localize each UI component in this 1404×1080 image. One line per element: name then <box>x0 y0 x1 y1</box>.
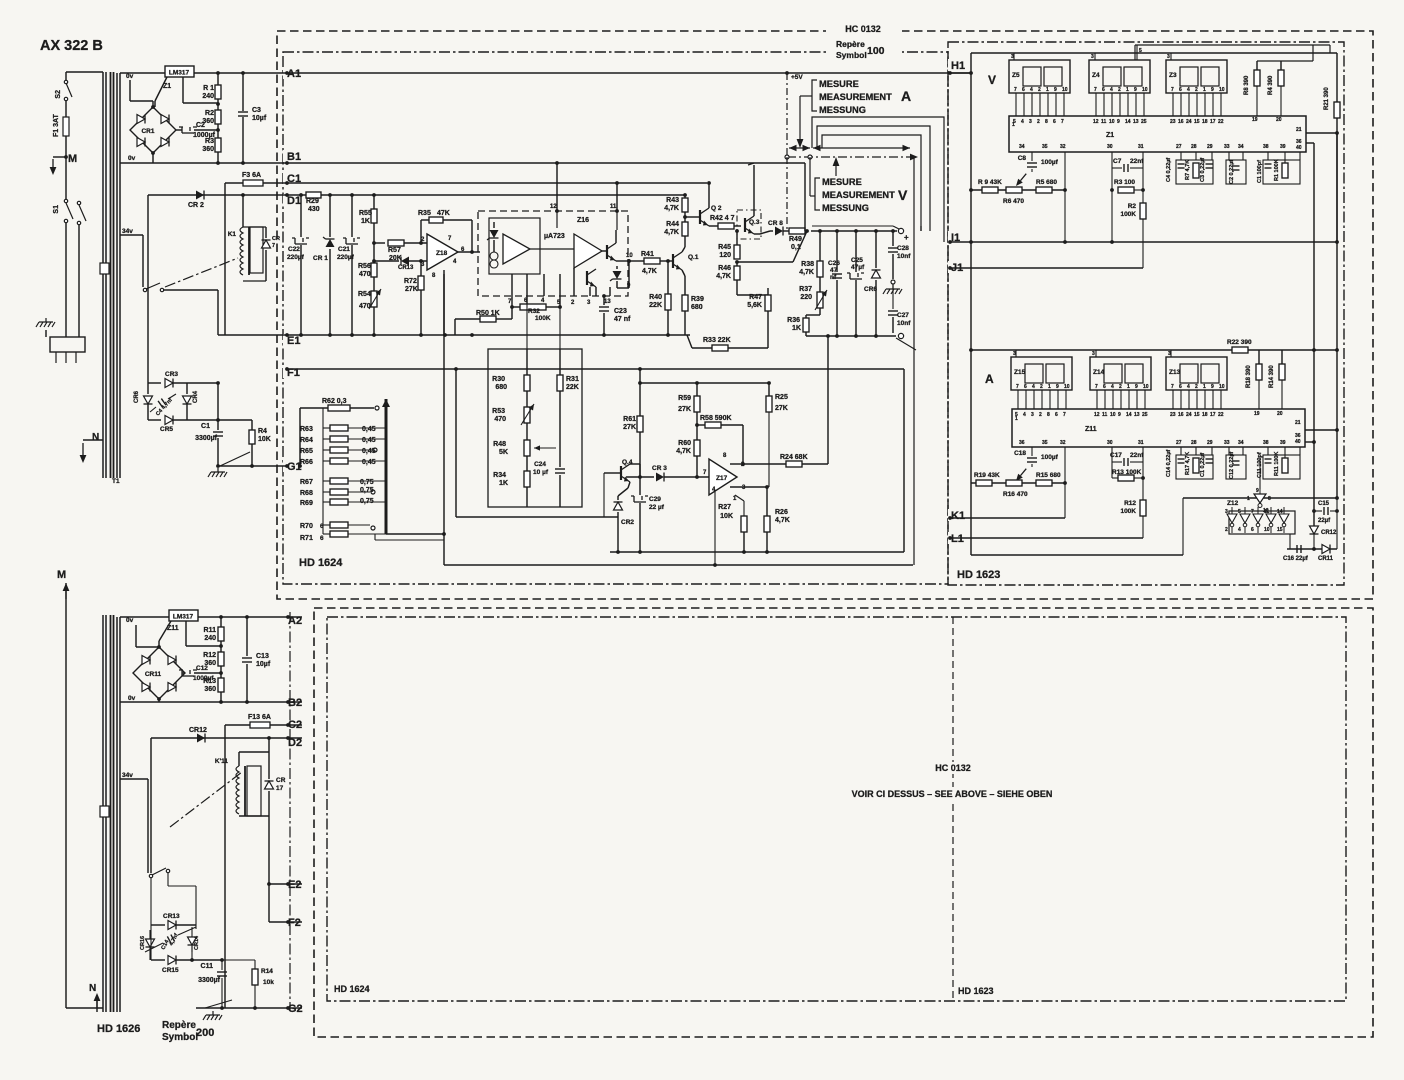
svg-text:22K: 22K <box>649 302 662 309</box>
svg-text:10k: 10k <box>263 979 274 986</box>
sense line L2 <box>817 126 930 231</box>
wire G2 jog <box>205 1000 232 1008</box>
svg-text:R12: R12 <box>203 652 216 659</box>
bracket MESURE V <box>810 157 820 210</box>
resistor R46 4.7K <box>716 262 740 295</box>
svg-text:Q.1: Q.1 <box>688 254 699 261</box>
bus D2 rail <box>151 737 302 739</box>
terminal I1 <box>948 231 968 244</box>
shunt R49 0.1 <box>789 228 805 251</box>
svg-text:13: 13 <box>604 299 611 305</box>
diode CR5 (aux) <box>148 416 218 434</box>
svg-text:R12: R12 <box>1124 500 1136 507</box>
svg-text:R61: R61 <box>623 416 636 423</box>
Z16 bottom pin 7 <box>508 274 512 305</box>
svg-text:15: 15 <box>1194 412 1200 418</box>
resistor R60 4.7K <box>676 425 700 479</box>
wire D2 column <box>150 738 152 873</box>
svg-text:10: 10 <box>626 253 633 259</box>
HC 0132 label (lower) <box>928 762 978 774</box>
svg-text:AX 322 B: AX 322 B <box>40 38 103 54</box>
filter R11 100K <box>1274 447 1300 476</box>
diode CR12 (display) <box>1310 526 1338 549</box>
svg-text:C25: C25 <box>851 257 863 264</box>
wire pot rail A <box>971 482 1065 484</box>
wire R11-R12 <box>219 641 223 652</box>
svg-text:R26: R26 <box>775 509 788 516</box>
svg-text:6: 6 <box>1103 384 1106 390</box>
svg-text:36: 36 <box>1019 440 1025 446</box>
display Z3 pins <box>1170 87 1225 125</box>
svg-text:R29: R29 <box>306 198 319 205</box>
svg-text:10: 10 <box>1142 87 1148 93</box>
svg-text:5,6K: 5,6K <box>747 302 762 309</box>
capacitor C8 100µf <box>1016 152 1059 186</box>
bus F2 rail <box>269 921 302 923</box>
svg-text:4,7K: 4,7K <box>775 517 790 524</box>
wire LM317 adj <box>183 77 218 103</box>
svg-text:31: 31 <box>1138 144 1144 150</box>
svg-text:H1: H1 <box>951 60 965 72</box>
mains wire top <box>66 71 103 73</box>
svg-text:R37: R37 <box>799 286 812 293</box>
svg-text:C4 0,22µf: C4 0,22µf <box>1166 158 1172 182</box>
Z1 bottom pins <box>1019 144 1286 150</box>
svg-text:0v: 0v <box>126 617 134 624</box>
svg-text:3: 3 <box>1168 351 1171 357</box>
svg-text:7: 7 <box>1014 87 1017 93</box>
svg-text:CR 2: CR 2 <box>188 202 204 209</box>
wire R46 to R47 <box>737 294 768 296</box>
output transistor (Z16) <box>602 230 633 263</box>
arrow N (up) <box>89 983 100 1012</box>
lower-left dash-dot border <box>289 612 291 1010</box>
svg-text:27K: 27K <box>678 406 691 413</box>
inverter bank Z12 box <box>1229 511 1295 534</box>
svg-text:CR11: CR11 <box>145 671 162 678</box>
wire inverter rail <box>1183 496 1339 555</box>
wire switch out <box>151 884 196 925</box>
wire CR2 bottom drop <box>616 517 620 554</box>
svg-text:31: 31 <box>1138 440 1144 446</box>
wire relay rails <box>239 736 271 816</box>
svg-text:C22: C22 <box>288 246 300 253</box>
svg-text:32: 32 <box>1060 144 1066 150</box>
svg-text:Q.3: Q.3 <box>749 219 760 226</box>
rail amp top <box>640 382 769 384</box>
capacitor C24 10µf <box>533 391 565 507</box>
svg-text:R8 390: R8 390 <box>1244 75 1250 95</box>
svg-text:R4 390: R4 390 <box>1268 75 1274 95</box>
HD 1624 label <box>299 557 343 569</box>
bridge rectifier CR11 <box>133 645 185 701</box>
display Z14 <box>1090 350 1151 390</box>
svg-text:Z13: Z13 <box>1169 369 1181 376</box>
svg-text:R14: R14 <box>261 968 273 975</box>
dash-dot +5V drop <box>786 73 788 229</box>
sense line L1 <box>812 117 944 242</box>
svg-text:10µf: 10µf <box>256 661 271 668</box>
terminal A1 <box>283 67 305 80</box>
wire bridge2 bottom <box>158 699 160 702</box>
svg-text:8: 8 <box>1268 496 1271 502</box>
sub-board box R30-R34 <box>488 349 582 507</box>
terminal H1 <box>948 59 968 75</box>
wire H1-R9 column <box>950 73 973 350</box>
svg-text:3: 3 <box>1167 54 1170 60</box>
svg-text:S1: S1 <box>53 205 60 214</box>
dash-dot measure line <box>785 154 918 565</box>
svg-text:R45: R45 <box>718 244 731 251</box>
wire V+ top <box>811 226 909 242</box>
svg-text:MESSUNG: MESSUNG <box>822 203 869 213</box>
svg-text:2: 2 <box>1037 119 1040 125</box>
svg-text:N: N <box>89 983 96 994</box>
wire N arrow <box>80 432 103 463</box>
svg-text:R11: R11 <box>204 627 217 634</box>
bus B1 rail <box>120 161 805 165</box>
wire C2 column <box>224 725 226 1008</box>
svg-text:LM317: LM317 <box>169 70 190 77</box>
svg-text:5: 5 <box>1139 48 1142 54</box>
resistor R35 47K <box>418 210 480 254</box>
svg-text:MEASUREMENT: MEASUREMENT <box>822 190 895 200</box>
svg-text:11: 11 <box>1101 119 1107 125</box>
svg-text:47µf: 47µf <box>851 264 865 271</box>
wire R8R4 top rail <box>1257 45 1313 61</box>
resistor R12 360 <box>203 652 224 667</box>
svg-text:3: 3 <box>1225 509 1228 515</box>
svg-text:R34: R34 <box>493 472 506 479</box>
svg-text:6: 6 <box>1053 119 1056 125</box>
wire F1 right drop <box>903 369 905 552</box>
svg-text:C2 0,22µf: C2 0,22µf <box>1229 160 1235 184</box>
svg-text:Z5: Z5 <box>1012 72 1020 79</box>
svg-text:21: 21 <box>1296 127 1302 133</box>
op-amp Z18 <box>421 234 465 279</box>
svg-text:10K: 10K <box>258 436 271 443</box>
wire LM317 to bridge <box>155 77 167 107</box>
zener (Z16 out) <box>610 259 631 289</box>
bottom rail 565 <box>444 563 913 567</box>
svg-text:29: 29 <box>1207 144 1213 150</box>
label A <box>985 372 994 386</box>
filter C11 100pf <box>1257 447 1300 479</box>
resistor R14 10k <box>222 960 274 1010</box>
terminal A2 <box>285 614 307 627</box>
svg-text:2: 2 <box>1195 87 1198 93</box>
svg-text:9: 9 <box>1135 384 1138 390</box>
svg-text:CR11: CR11 <box>1318 556 1334 562</box>
svg-text:Symbol: Symbol <box>162 1032 198 1043</box>
resistor R32 100K <box>512 296 562 322</box>
svg-text:10: 10 <box>1109 119 1115 125</box>
dash-dot link relay2 <box>170 772 242 827</box>
svg-text:4,7K: 4,7K <box>799 269 814 276</box>
svg-text:Z16: Z16 <box>577 217 589 224</box>
svg-text:CR14: CR14 <box>194 935 200 950</box>
svg-text:R58 590K: R58 590K <box>700 415 732 422</box>
svg-text:12: 12 <box>1093 119 1099 125</box>
pot R48 5K <box>493 423 556 456</box>
diode CR11 (display) <box>1318 545 1334 563</box>
label V <box>988 73 996 87</box>
terminal F1 <box>283 366 305 379</box>
arrow M (down) <box>50 153 78 175</box>
svg-text:3300µf: 3300µf <box>195 435 218 442</box>
svg-text:Z12: Z12 <box>1227 500 1239 507</box>
wire box bottom <box>527 506 560 508</box>
HD 1624 label (lower box) <box>334 984 370 994</box>
svg-text:27K: 27K <box>775 405 788 412</box>
bus F1 rail <box>287 367 904 371</box>
svg-text:7: 7 <box>1063 412 1066 418</box>
wire Z18 bottom pins <box>443 270 445 335</box>
svg-text:47K: 47K <box>437 210 450 217</box>
filter C2 0.22µf <box>1226 152 1246 184</box>
resistor R4 10K <box>218 420 271 468</box>
wire pin32A col <box>1063 447 1067 518</box>
svg-text:29: 29 <box>1207 440 1213 446</box>
svg-text:220: 220 <box>800 294 812 301</box>
svg-text:11: 11 <box>610 204 617 210</box>
capacitor C14 4.7nf (PS2) <box>145 927 196 952</box>
resistor R57 20K <box>374 240 427 262</box>
terminal C2 <box>285 718 307 731</box>
label 0v top <box>126 73 134 80</box>
display Z5 <box>1009 53 1070 93</box>
svg-text:39: 39 <box>1280 440 1286 446</box>
svg-text:100: 100 <box>867 45 885 57</box>
bus E1 rail <box>287 333 690 337</box>
resistor R1 240 <box>202 71 221 100</box>
svg-text:Symbol: Symbol <box>836 50 867 60</box>
svg-text:40: 40 <box>1296 145 1302 151</box>
svg-text:24: 24 <box>1186 412 1192 418</box>
rail A top <box>969 348 1336 352</box>
terminal B2 <box>285 696 307 709</box>
svg-text:K1: K1 <box>951 510 965 522</box>
label Repere Symbol 200 <box>162 1020 214 1043</box>
svg-text:1: 1 <box>1247 496 1250 502</box>
resistor R15 680 <box>1036 472 1061 486</box>
label 34v (PS2) <box>122 772 133 779</box>
wire 34v tap2 <box>120 779 148 873</box>
span arrows A <box>789 145 810 151</box>
svg-text:0,75: 0,75 <box>360 487 374 494</box>
svg-text:22K: 22K <box>566 384 579 391</box>
svg-text:10: 10 <box>1064 384 1070 390</box>
pin 11 (Z16) <box>610 183 619 213</box>
svg-text:4: 4 <box>1023 412 1026 418</box>
resistor R70 <box>300 502 375 530</box>
svg-text:9: 9 <box>1117 119 1120 125</box>
svg-text:HD 1623: HD 1623 <box>957 569 1000 581</box>
filter C14 0.22µf <box>1166 447 1213 479</box>
svg-text:6: 6 <box>1251 527 1254 533</box>
svg-text:R66: R66 <box>300 459 313 466</box>
bus A2 rail <box>120 616 302 618</box>
svg-text:1: 1 <box>1048 384 1051 390</box>
bottom rail 552 <box>610 550 904 554</box>
svg-text:34v: 34v <box>122 772 133 779</box>
wire Z16 pin11 internal <box>616 211 618 230</box>
wire Z17 pin3 <box>730 485 769 489</box>
wire F1 loop bottom <box>456 516 618 518</box>
svg-text:C12: C12 <box>196 665 208 672</box>
switch (PS2) <box>148 868 170 884</box>
wire I1 rail <box>950 133 1337 242</box>
diode CR2 <box>614 488 635 526</box>
Z16 bottom pin 4 <box>541 274 545 304</box>
svg-text:9: 9 <box>1211 384 1214 390</box>
svg-text:K'11: K'11 <box>215 758 228 765</box>
svg-text:40: 40 <box>1295 439 1301 445</box>
capacitor C18 100µf <box>1014 447 1059 481</box>
svg-text:16: 16 <box>1178 119 1184 125</box>
filter R7 4.7K <box>1185 152 1199 180</box>
svg-text:10: 10 <box>1062 87 1068 93</box>
svg-text:C1: C1 <box>201 423 210 430</box>
pin 12 (Z16) <box>550 163 559 213</box>
resistor R12 100K <box>1120 447 1146 538</box>
svg-text:0v: 0v <box>126 73 134 80</box>
svg-text:4,7K: 4,7K <box>664 229 679 236</box>
wire Z18 column long <box>442 274 446 565</box>
pot R16 470 <box>1003 480 1028 498</box>
capacitor C4 4.7nf <box>150 394 176 417</box>
svg-text:C3 0,22µf: C3 0,22µf <box>1200 158 1206 182</box>
lower board divider <box>952 617 954 1001</box>
wire LM317-2 to bridge <box>159 621 171 647</box>
resistor R67 0.75 <box>300 461 386 486</box>
svg-text:100K: 100K <box>535 315 551 322</box>
svg-text:R70: R70 <box>300 523 313 530</box>
svg-text:C3: C3 <box>252 107 261 114</box>
svg-text:6: 6 <box>1055 412 1058 418</box>
diode CR16 <box>140 930 155 952</box>
svg-text:R48: R48 <box>493 441 506 448</box>
diode CR13 <box>151 913 196 930</box>
svg-text:7: 7 <box>1251 509 1254 515</box>
node M junction <box>64 155 68 159</box>
svg-text:A: A <box>985 372 994 386</box>
svg-text:R64: R64 <box>300 437 313 444</box>
svg-text:47 nf: 47 nf <box>614 316 631 323</box>
resistor R62 0.3 <box>298 398 379 468</box>
svg-text:38: 38 <box>1263 440 1269 446</box>
wire pin32 col <box>1063 152 1067 244</box>
svg-text:200: 200 <box>196 1027 214 1039</box>
svg-text:E1: E1 <box>287 335 300 347</box>
resistor R45 120 <box>718 229 740 264</box>
svg-text:R13: R13 <box>203 678 216 685</box>
svg-text:680: 680 <box>495 384 507 391</box>
svg-text:4: 4 <box>1187 384 1190 390</box>
svg-text:0,45: 0,45 <box>362 459 376 466</box>
diode CR13 <box>372 257 427 272</box>
diode CR14 <box>188 927 201 952</box>
relay K'11 <box>215 752 261 816</box>
capacitor C16 22µf <box>1283 545 1309 562</box>
svg-text:19: 19 <box>1254 411 1260 417</box>
svg-text:470: 470 <box>494 416 506 423</box>
inverter Z12 top <box>1247 457 1271 514</box>
svg-text:8: 8 <box>1047 412 1050 418</box>
display Z4 <box>1089 45 1150 93</box>
svg-text:CR12: CR12 <box>189 727 207 734</box>
label 0v mid (PS2) <box>128 695 136 702</box>
wire R1-R2 <box>216 99 220 110</box>
resistor R42 4.7 <box>710 215 741 229</box>
svg-text:17: 17 <box>276 785 284 792</box>
Z16 bottom pin 6 <box>524 274 528 304</box>
svg-text:R22 390: R22 390 <box>1227 339 1252 346</box>
svg-text:10: 10 <box>1143 384 1149 390</box>
resistor R68 0.75 <box>300 481 375 497</box>
capacitor C28 10nf <box>888 229 911 279</box>
Z16 bottom pin 3 <box>587 287 591 306</box>
wire S1-plug <box>66 223 79 337</box>
svg-text:R38: R38 <box>801 261 814 268</box>
svg-text:4,7K: 4,7K <box>716 273 731 280</box>
svg-text:10nf: 10nf <box>897 320 911 327</box>
svg-text:CR5: CR5 <box>160 426 173 433</box>
resistor R63 0.45 <box>300 408 386 433</box>
fuse F1 3AT <box>53 113 69 137</box>
svg-text:7: 7 <box>1016 384 1019 390</box>
svg-text:1K: 1K <box>361 218 370 225</box>
label 34v <box>122 228 133 235</box>
resistor R3 360 <box>202 138 221 165</box>
HD 1623 label (lower box) <box>958 986 994 996</box>
svg-text:34: 34 <box>1238 144 1244 150</box>
svg-text:9: 9 <box>1118 412 1121 418</box>
svg-text:100K: 100K <box>1120 508 1136 515</box>
svg-text:R54: R54 <box>358 291 371 298</box>
wire R55-R56 <box>372 223 376 263</box>
svg-text:R36: R36 <box>787 317 800 324</box>
transformer T11 <box>100 615 120 1012</box>
capacitor C23 47nf <box>599 294 631 337</box>
label MESURE A <box>819 79 911 115</box>
HD 1623 label <box>957 569 1000 581</box>
svg-text:4,7K: 4,7K <box>642 268 657 275</box>
svg-text:12: 12 <box>1094 412 1100 418</box>
resistor R 9 43K <box>978 179 1002 193</box>
capacitor C12 1000µf <box>179 665 223 682</box>
resistor R43 4.7K <box>664 193 688 212</box>
svg-text:C1 0,22µf: C1 0,22µf <box>1200 453 1206 477</box>
svg-text:M: M <box>57 569 66 581</box>
svg-text:2: 2 <box>1119 384 1122 390</box>
wire bridge top <box>130 80 153 107</box>
svg-text:HD 1623: HD 1623 <box>958 986 994 996</box>
diode CR 3 <box>626 465 709 482</box>
regulator Z1 LM317 <box>163 66 194 90</box>
svg-text:R71: R71 <box>300 535 313 542</box>
svg-text:21: 21 <box>1295 420 1301 426</box>
svg-text:CR: CR <box>272 236 280 242</box>
Z16 bottom pin 2 <box>571 268 575 306</box>
resistor R34 1K <box>493 456 530 507</box>
svg-text:HC 0132: HC 0132 <box>845 24 881 34</box>
wire amp1-amp2 <box>530 248 574 250</box>
svg-text:6: 6 <box>1024 384 1027 390</box>
regulator Z11 LM317 <box>167 610 198 632</box>
svg-text:A1: A1 <box>287 68 301 80</box>
sense line L3 <box>822 135 921 226</box>
